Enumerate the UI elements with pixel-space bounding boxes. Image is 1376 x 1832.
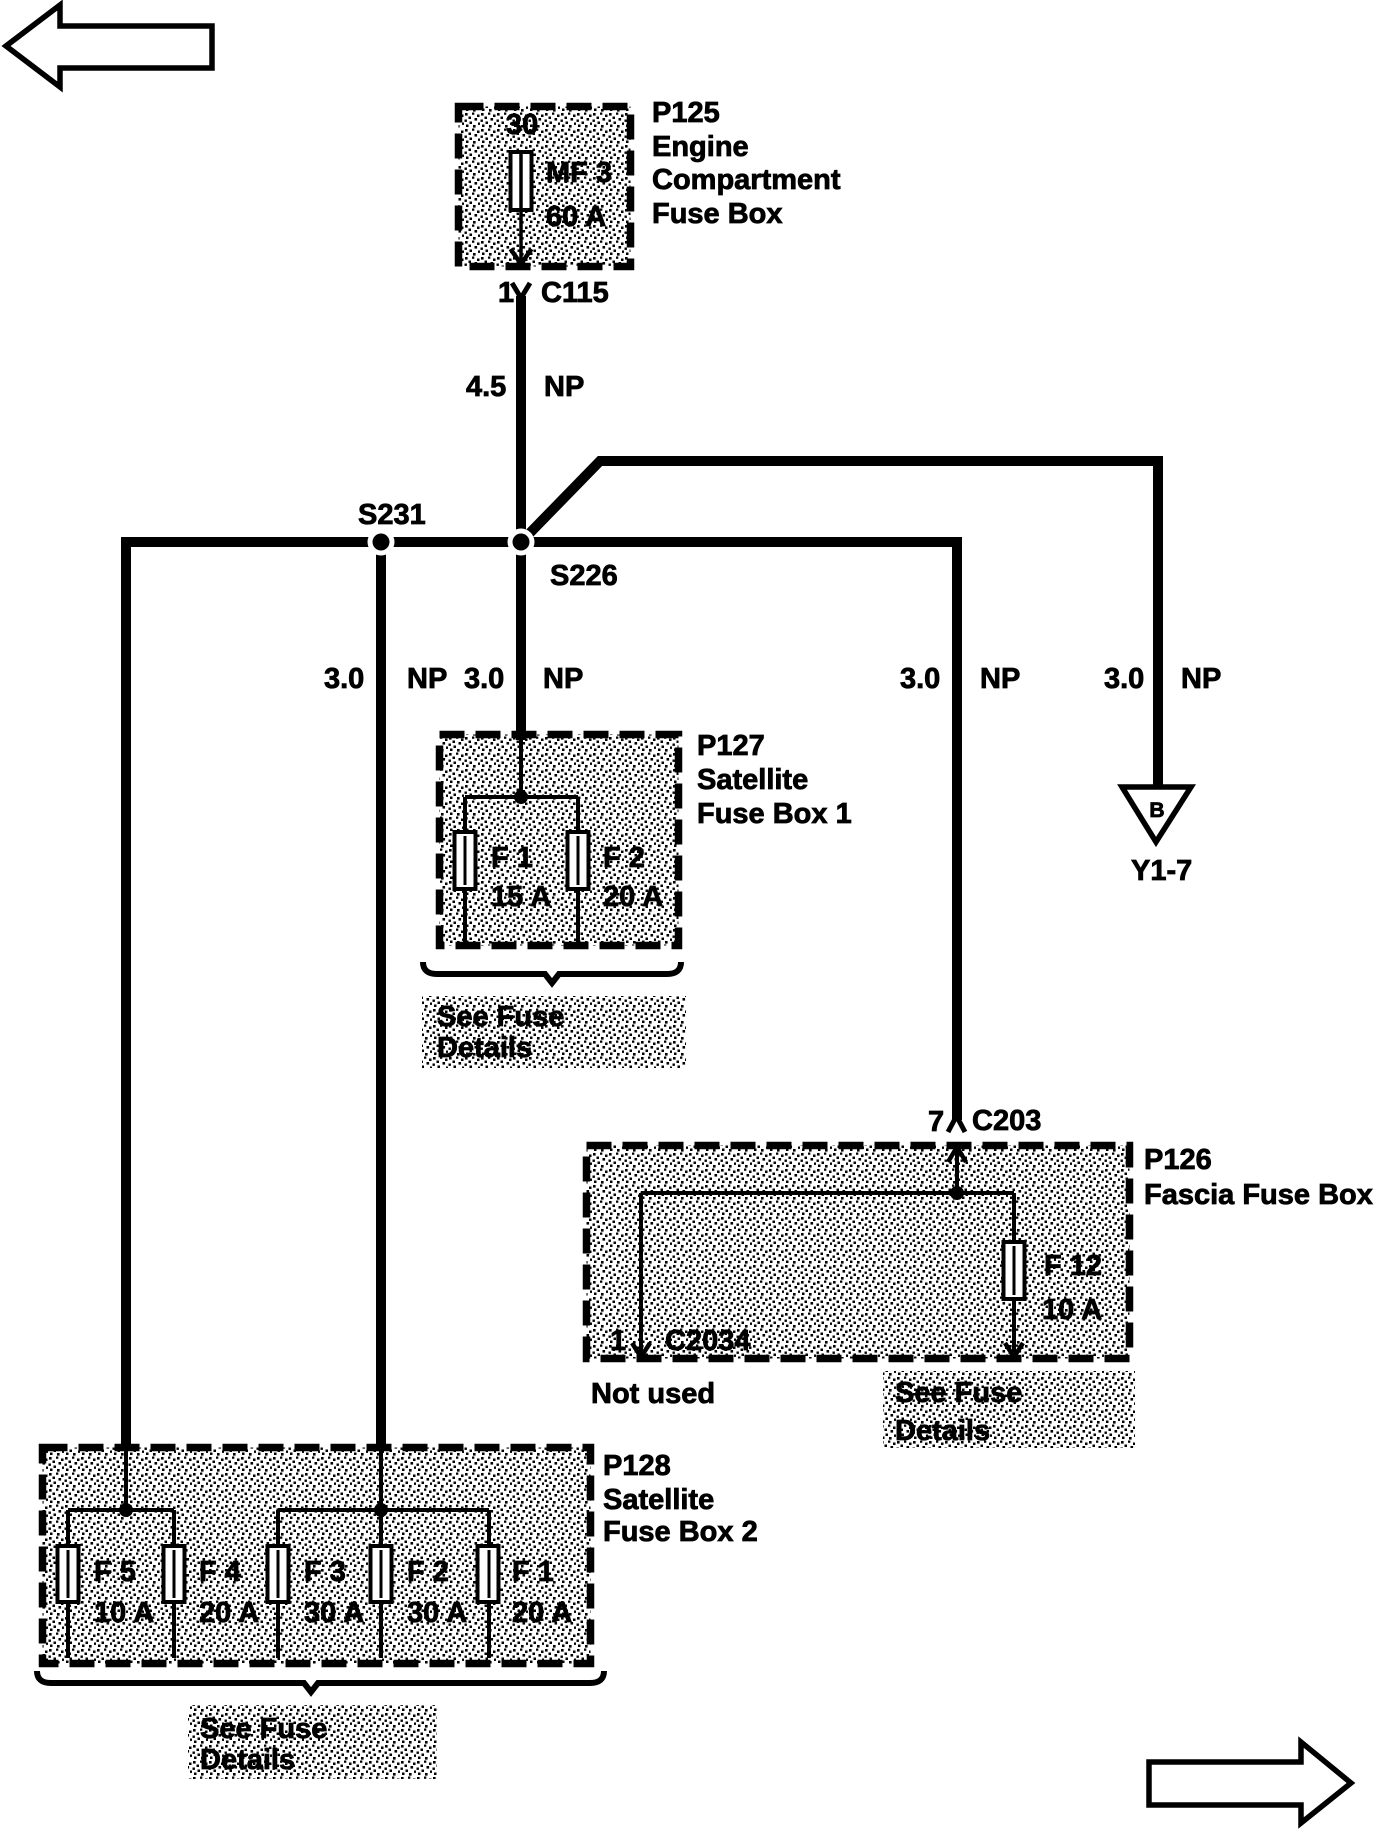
svg-text:F 1: F 1 bbox=[512, 1556, 554, 1588]
svg-text:1: 1 bbox=[498, 277, 514, 309]
svg-text:3.0: 3.0 bbox=[900, 663, 940, 695]
svg-text:C2034: C2034 bbox=[665, 1325, 750, 1357]
svg-text:S231: S231 bbox=[358, 499, 426, 531]
svg-text:3.0: 3.0 bbox=[464, 663, 504, 695]
svg-text:30 A: 30 A bbox=[407, 1597, 467, 1629]
svg-text:F 12: F 12 bbox=[1044, 1250, 1102, 1282]
svg-text:7: 7 bbox=[928, 1106, 944, 1138]
svg-text:Details: Details bbox=[437, 1032, 532, 1064]
svg-text:F 4: F 4 bbox=[199, 1556, 241, 1588]
svg-text:Y1-7: Y1-7 bbox=[1131, 855, 1192, 887]
svg-text:3.0: 3.0 bbox=[324, 663, 364, 695]
svg-text:20 A: 20 A bbox=[603, 881, 663, 913]
svg-text:Details: Details bbox=[895, 1415, 990, 1447]
svg-text:NP: NP bbox=[543, 663, 583, 695]
svg-text:S226: S226 bbox=[550, 560, 618, 592]
svg-text:Details: Details bbox=[200, 1744, 295, 1776]
svg-text:C203: C203 bbox=[972, 1105, 1041, 1137]
svg-text:30: 30 bbox=[506, 109, 538, 141]
svg-text:F 2: F 2 bbox=[603, 842, 645, 874]
svg-text:P127: P127 bbox=[697, 730, 765, 762]
svg-text:P128: P128 bbox=[603, 1450, 671, 1482]
svg-text:Fuse Box: Fuse Box bbox=[652, 198, 783, 230]
svg-text:F 1: F 1 bbox=[491, 842, 533, 874]
svg-text:F 2: F 2 bbox=[407, 1556, 449, 1588]
svg-text:20 A: 20 A bbox=[199, 1597, 259, 1629]
svg-text:NP: NP bbox=[544, 371, 584, 403]
svg-text:C115: C115 bbox=[541, 277, 609, 309]
svg-text:15 A: 15 A bbox=[491, 881, 551, 913]
svg-text:NP: NP bbox=[980, 663, 1020, 695]
svg-text:Satellite: Satellite bbox=[697, 764, 808, 796]
svg-text:NP: NP bbox=[1181, 663, 1221, 695]
svg-text:Compartment: Compartment bbox=[652, 164, 841, 196]
svg-text:10 A: 10 A bbox=[94, 1597, 154, 1629]
svg-text:See Fuse: See Fuse bbox=[200, 1713, 327, 1745]
svg-text:Fuse Box 2: Fuse Box 2 bbox=[603, 1516, 758, 1548]
svg-text:1: 1 bbox=[610, 1325, 626, 1357]
svg-text:NP: NP bbox=[407, 663, 447, 695]
svg-text:See Fuse: See Fuse bbox=[895, 1377, 1022, 1409]
svg-text:See Fuse: See Fuse bbox=[437, 1001, 564, 1033]
svg-text:4.5: 4.5 bbox=[466, 371, 506, 403]
svg-text:P126: P126 bbox=[1144, 1144, 1212, 1176]
svg-text:20 A: 20 A bbox=[512, 1597, 572, 1629]
svg-text:F 5: F 5 bbox=[94, 1556, 136, 1588]
svg-text:F 3: F 3 bbox=[304, 1556, 346, 1588]
svg-text:Not used: Not used bbox=[591, 1378, 715, 1410]
svg-text:Fuse Box 1: Fuse Box 1 bbox=[697, 798, 852, 830]
svg-text:Fascia Fuse Box: Fascia Fuse Box bbox=[1144, 1179, 1373, 1211]
svg-text:P125: P125 bbox=[652, 97, 720, 129]
svg-text:30 A: 30 A bbox=[304, 1597, 364, 1629]
svg-text:60 A: 60 A bbox=[546, 201, 606, 233]
svg-text:Satellite: Satellite bbox=[603, 1484, 714, 1516]
svg-text:3.0: 3.0 bbox=[1104, 663, 1144, 695]
svg-text:B: B bbox=[1149, 799, 1164, 822]
svg-text:10 A: 10 A bbox=[1042, 1294, 1102, 1326]
svg-text:Engine: Engine bbox=[652, 131, 749, 163]
svg-text:MF 3: MF 3 bbox=[546, 157, 612, 189]
